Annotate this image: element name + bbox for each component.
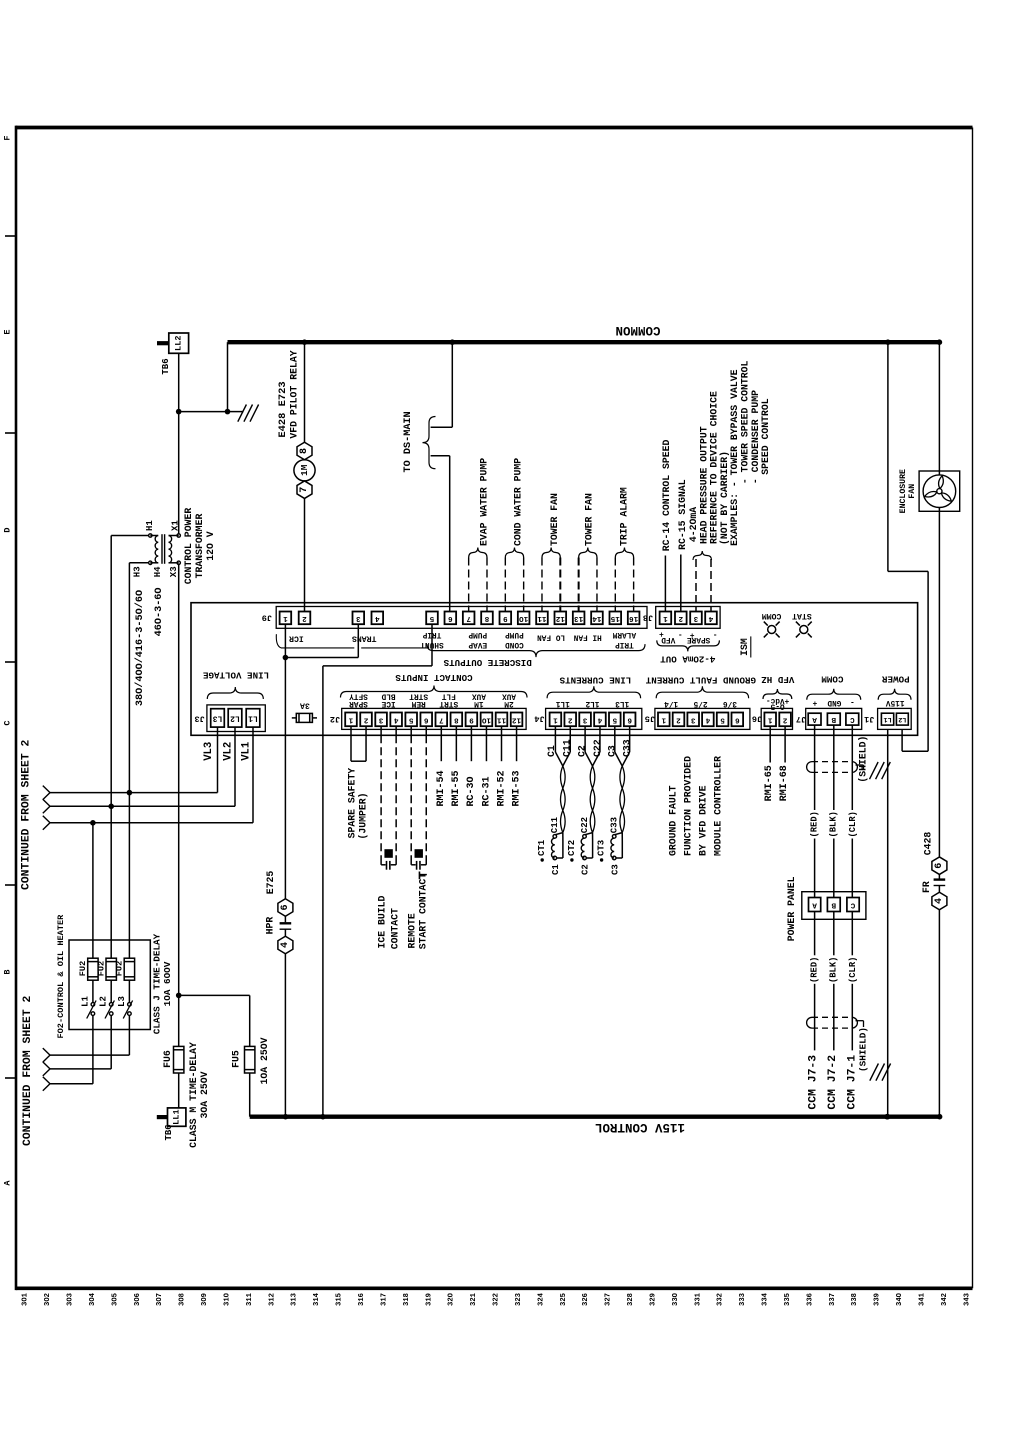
svg-text:RMI-65: RMI-65 xyxy=(764,765,775,801)
svg-text:339: 339 xyxy=(874,1293,882,1306)
pin J2-3 xyxy=(375,713,387,727)
svg-text:(JUMPER): (JUMPER) xyxy=(357,792,368,839)
svg-text:(CLR): (CLR) xyxy=(848,957,858,983)
svg-text:1O: 1O xyxy=(481,715,491,723)
fuse FU5 xyxy=(245,1046,255,1073)
svg-text:X3: X3 xyxy=(169,566,179,577)
svg-text:+: + xyxy=(812,698,817,706)
pin J2-10 xyxy=(481,713,493,727)
svg-text:B: B xyxy=(831,715,836,723)
pin J3-L3 xyxy=(211,709,225,727)
brace VFD HZ xyxy=(763,689,792,699)
wire: LL2 to node at 411.6 xyxy=(178,353,180,411)
connector POWER PANEL xyxy=(802,892,866,920)
pin J9-16 xyxy=(628,612,640,625)
wire (field) to J9-8 xyxy=(486,558,488,612)
connector J7 xyxy=(806,708,862,729)
svg-text:MODULE CONTROLLER: MODULE CONTROLLER xyxy=(713,756,724,856)
pin J9-5 xyxy=(426,612,438,625)
svg-text:(SHIELD): (SHIELD) xyxy=(858,1027,869,1072)
pin J9-12 xyxy=(555,612,567,625)
svg-text:EVAP WATER PUMP: EVAP WATER PUMP xyxy=(479,458,490,546)
svg-text:LINE CURRENTS: LINE CURRENTS xyxy=(559,675,631,686)
svg-text:327: 327 xyxy=(605,1293,613,1306)
svg-text:3O4: 3O4 xyxy=(89,1292,97,1306)
contact L1 xyxy=(92,980,94,1002)
wire: J4 pair to CT CT1 xyxy=(554,726,556,752)
contact L2 xyxy=(110,980,112,1002)
svg-text:DISCRETE OUTPUTS: DISCRETE OUTPUTS xyxy=(443,657,532,668)
wire tag 7 xyxy=(297,481,312,499)
svg-text:(RED): (RED) xyxy=(809,957,819,983)
svg-text:C3: C3 xyxy=(606,745,617,757)
svg-text:ICE BUILD: ICE BUILD xyxy=(377,895,388,948)
svg-text:C: C xyxy=(3,720,13,725)
svg-text:HPR: HPR xyxy=(264,917,275,935)
junction xyxy=(885,1114,891,1120)
svg-text:343: 343 xyxy=(963,1293,971,1306)
terminal TB6-LL2 xyxy=(169,333,189,353)
svg-text:CONTINUED FROM SHEET 2: CONTINUED FROM SHEET 2 xyxy=(22,995,34,1146)
wire (field) to J9-7 xyxy=(468,558,470,612)
svg-text:3/6: 3/6 xyxy=(723,699,737,707)
svg-text:BY VFD DRIVE: BY VFD DRIVE xyxy=(698,785,709,856)
contact block REMOTE START CONTACT xyxy=(415,849,423,858)
svg-text:8: 8 xyxy=(299,448,310,454)
svg-text:CONTACT: CONTACT xyxy=(389,908,400,949)
svg-text:FR: FR xyxy=(921,881,932,893)
sheet arrow VL3 xyxy=(43,786,50,793)
pin J9-8 xyxy=(481,612,493,625)
fuse FU2 xyxy=(124,958,134,980)
svg-text:335: 335 xyxy=(784,1293,792,1306)
svg-text:SPARE: SPARE xyxy=(687,635,711,643)
svg-text:D: D xyxy=(3,527,13,532)
pin J1-L2 xyxy=(896,713,908,725)
pin J5-5 xyxy=(717,713,729,727)
svg-text:4: 4 xyxy=(393,715,398,723)
svg-text:-: - xyxy=(850,697,855,705)
wire: 115V CONTROL bus xyxy=(250,1114,940,1118)
wire: 3A fuse line to 115V bus xyxy=(322,666,324,1117)
fuse FU2 xyxy=(88,958,98,980)
connector J1 xyxy=(878,708,912,729)
wire (field) to J9-12 xyxy=(559,558,561,612)
contact FR xyxy=(938,874,940,878)
svg-text:6: 6 xyxy=(424,715,429,723)
svg-text:C2: C2 xyxy=(577,745,588,757)
brace LINE VOLTAGE xyxy=(207,687,263,699)
pin J5-6 xyxy=(732,713,744,727)
svg-text:4: 4 xyxy=(597,715,602,723)
pin J2-4 xyxy=(390,713,402,727)
wire: fan to FR contact xyxy=(938,511,940,857)
svg-text:TO DS-MAIN: TO DS-MAIN xyxy=(403,411,414,472)
svg-text:12: 12 xyxy=(512,715,522,723)
svg-text:CCM J7-1: CCM J7-1 xyxy=(847,1055,859,1110)
pin J4-5 xyxy=(609,713,621,727)
svg-text:FAN: FAN xyxy=(908,484,917,499)
svg-text:J8: J8 xyxy=(643,612,653,622)
brace LINE CURRENTS xyxy=(547,686,641,698)
svg-text:RMI-68: RMI-68 xyxy=(779,765,790,801)
svg-text:7: 7 xyxy=(439,715,444,723)
svg-text:SPAR: SPAR xyxy=(349,699,368,707)
wire: VL2 riser to FU2-2 xyxy=(110,536,112,959)
pin J2-6 xyxy=(420,713,432,727)
svg-text:PUMP: PUMP xyxy=(505,630,524,638)
wire: FR contact to 115V bus xyxy=(938,910,940,1117)
pin J5-4 xyxy=(702,713,714,727)
junction xyxy=(320,1114,326,1120)
svg-text:EVAP: EVAP xyxy=(468,640,487,648)
svg-text:CT1: CT1 xyxy=(537,839,547,856)
svg-text:1: 1 xyxy=(661,715,666,723)
svg-text:14: 14 xyxy=(592,614,602,622)
svg-text:E428 E723: E428 E723 xyxy=(277,381,289,437)
svg-text:B: B xyxy=(831,901,836,909)
pin J2-8 xyxy=(451,713,463,727)
svg-text:323: 323 xyxy=(515,1293,523,1306)
wire: J2 stub RC-30 xyxy=(470,726,472,761)
brace output COND WATER PUMP xyxy=(505,548,523,558)
wire (field) to J8-4 xyxy=(710,559,712,612)
svg-text:324: 324 xyxy=(537,1292,545,1306)
wire: X1 riser to LL2 node xyxy=(178,413,180,534)
pin J5-3 xyxy=(687,713,699,727)
junction xyxy=(885,339,891,345)
wire: COMMON bus xyxy=(228,340,940,344)
svg-text:3O7: 3O7 xyxy=(156,1293,164,1306)
contact L3 xyxy=(128,980,130,1002)
svg-text:TOWER FAN: TOWER FAN xyxy=(584,493,595,546)
svg-text:POWER: POWER xyxy=(882,674,910,685)
svg-text:AUX: AUX xyxy=(472,692,486,700)
svg-text:H4: H4 xyxy=(153,566,163,577)
wire: H1 to VL2 riser xyxy=(111,535,148,537)
svg-text:C: C xyxy=(850,901,855,909)
ground symbol xyxy=(228,411,244,413)
pin J4-2 xyxy=(564,713,576,727)
svg-text:3: 3 xyxy=(378,715,383,723)
svg-text:L1: L1 xyxy=(248,713,258,722)
wire: HPR line ICR node to contact xyxy=(284,658,286,899)
svg-text:2: 2 xyxy=(302,614,307,622)
pin X3 xyxy=(177,561,180,564)
current transformer CT3 xyxy=(614,833,622,835)
wire (field) from J2 REMOTE xyxy=(410,726,412,735)
pin J8-2 xyxy=(675,612,687,625)
svg-text:319: 319 xyxy=(425,1293,433,1306)
junction xyxy=(176,409,182,415)
svg-text:32O: 32O xyxy=(448,1292,456,1306)
wire: J2 stub RMI-54 xyxy=(440,726,442,761)
wire: COMMON to DS-MAIN bracket xyxy=(451,342,453,427)
connector J4 xyxy=(546,708,642,729)
svg-text:CCM J7-2: CCM J7-2 xyxy=(827,1055,839,1110)
wire: H4 to VL3 riser xyxy=(129,562,148,564)
svg-text:L3: L3 xyxy=(117,996,127,1007)
pin J9-7 xyxy=(463,612,475,625)
wire (field) to J8-3 xyxy=(695,559,697,612)
svg-text:321: 321 xyxy=(470,1292,478,1306)
wire: J2 stub RMI-52 xyxy=(501,726,503,761)
pin J2-12 xyxy=(511,713,523,727)
wire: node to FU5 branch xyxy=(179,994,250,996)
ground (shield) xyxy=(870,762,879,779)
svg-text:ICR: ICR xyxy=(289,634,304,643)
svg-text:(CLR): (CLR) xyxy=(848,811,858,837)
connector J2 xyxy=(342,708,526,729)
wire: COMMON to 1M relay xyxy=(304,342,306,442)
wire tag 6 (FR) xyxy=(932,857,947,875)
svg-text:1O: 1O xyxy=(519,614,529,622)
svg-text:J5: J5 xyxy=(645,713,655,723)
wire: VL1 riser to FU2-1 xyxy=(92,823,94,958)
svg-text:313: 313 xyxy=(291,1293,299,1306)
fuse FU2 xyxy=(106,958,116,980)
svg-text:6: 6 xyxy=(627,715,632,723)
svg-text:(SHIELD): (SHIELD) xyxy=(858,736,869,783)
shield capsule lower xyxy=(812,1016,852,1018)
svg-text:338: 338 xyxy=(851,1293,859,1306)
svg-text:5: 5 xyxy=(720,715,725,723)
svg-text:RMI-55: RMI-55 xyxy=(451,770,462,806)
svg-text:REM: REM xyxy=(411,699,425,707)
svg-text:4: 4 xyxy=(705,715,710,723)
svg-text:RMI-54: RMI-54 xyxy=(436,770,447,806)
twisted pair CT1 xyxy=(561,766,566,833)
svg-text:H1: H1 xyxy=(145,520,155,531)
svg-text:HI FAN: HI FAN xyxy=(573,633,601,641)
svg-text:A: A xyxy=(812,715,817,723)
shield capsule upper xyxy=(812,761,852,763)
svg-text:J1: J1 xyxy=(864,714,874,724)
svg-text:336: 336 xyxy=(806,1293,814,1306)
svg-text:C3: C3 xyxy=(610,864,620,875)
pin J6-2 xyxy=(779,713,791,727)
wire: J4 pair to CT CT2 xyxy=(584,726,586,752)
wire: node to COMMON-bus drop xyxy=(179,411,228,413)
svg-text:RMI-53: RMI-53 xyxy=(511,770,522,806)
svg-text:318: 318 xyxy=(403,1293,411,1306)
svg-text:1L3: 1L3 xyxy=(615,699,629,707)
wire (field) to J9-10 xyxy=(523,558,525,612)
pin J6-1 xyxy=(764,713,776,727)
svg-text:1: 1 xyxy=(767,715,772,723)
svg-text:7: 7 xyxy=(466,614,471,622)
svg-text:3A: 3A xyxy=(300,701,310,710)
svg-text:L1: L1 xyxy=(884,715,892,723)
svg-text:VL1: VL1 xyxy=(241,742,253,761)
svg-text:8: 8 xyxy=(454,715,459,723)
wire: J2 stub RMI-53 xyxy=(516,726,518,761)
svg-text:2/5: 2/5 xyxy=(693,699,707,707)
contact block ICE BUILD CONTACT xyxy=(384,849,392,858)
svg-text:9: 9 xyxy=(503,614,508,622)
pin J7-C xyxy=(846,713,859,725)
svg-text:TRIP: TRIP xyxy=(615,640,634,648)
svg-text:9: 9 xyxy=(469,715,474,723)
terminal TB6-LL1 xyxy=(178,1073,180,1108)
svg-text:4: 4 xyxy=(375,614,380,622)
brace GROUND FAULT CURRENT xyxy=(656,686,748,698)
svg-text:11: 11 xyxy=(497,715,507,723)
pin J9-10 xyxy=(518,612,530,625)
pin J2-5 xyxy=(405,713,417,727)
svg-text:4: 4 xyxy=(708,614,713,622)
svg-text:VL3: VL3 xyxy=(203,742,215,761)
svg-text:325: 325 xyxy=(560,1293,568,1306)
sheet arrow L2 out xyxy=(43,1062,50,1069)
pin J5-1 xyxy=(658,713,670,727)
svg-text:A: A xyxy=(812,901,817,909)
svg-text:CLASS J TIME-DELAY: CLASS J TIME-DELAY xyxy=(151,933,162,1034)
connector J8 xyxy=(656,607,720,629)
svg-text:1: 1 xyxy=(348,715,353,723)
pin J7-A xyxy=(808,713,821,725)
svg-text:2: 2 xyxy=(782,715,787,723)
wire (field) to J9-16 xyxy=(633,558,635,612)
svg-text:TB6: TB6 xyxy=(164,1124,174,1140)
junction xyxy=(937,1114,943,1120)
brace output EVAP WATER PUMP xyxy=(469,548,487,558)
junction xyxy=(302,339,308,345)
wire VL3 xyxy=(50,792,218,794)
svg-text:L2: L2 xyxy=(99,996,109,1007)
svg-text:312: 312 xyxy=(268,1293,276,1306)
svg-text:L3: L3 xyxy=(213,713,223,722)
svg-text:TRANS: TRANS xyxy=(352,634,377,643)
svg-text:LL2: LL2 xyxy=(174,335,184,350)
fuse 3A xyxy=(292,717,297,719)
svg-text:J3: J3 xyxy=(194,713,204,723)
svg-text:SFTY: SFTY xyxy=(349,692,368,700)
svg-text:CT2: CT2 xyxy=(567,840,577,856)
svg-text:C11: C11 xyxy=(550,816,560,833)
connector J9 xyxy=(276,607,647,629)
svg-text:334: 334 xyxy=(762,1292,770,1306)
svg-text:1: 1 xyxy=(663,614,668,622)
svg-text:326: 326 xyxy=(582,1293,590,1306)
svg-text:SPARE SAFETY: SPARE SAFETY xyxy=(347,768,358,839)
svg-text:1: 1 xyxy=(553,715,558,723)
pin J1-L1 xyxy=(881,713,893,725)
pin J8-3 xyxy=(690,612,702,625)
svg-text:AUX: AUX xyxy=(502,692,516,700)
pin J2-11 xyxy=(496,713,508,727)
wire (field) from J2 ICE BUILD xyxy=(380,726,382,735)
svg-text:L2: L2 xyxy=(898,715,906,723)
pin J8-1 xyxy=(660,612,672,625)
svg-text:316: 316 xyxy=(358,1293,366,1306)
wire: J6-2 RMI-68 xyxy=(784,726,786,762)
pin J5-2 xyxy=(673,713,685,727)
svg-text:STRT: STRT xyxy=(439,699,458,707)
svg-text:3: 3 xyxy=(690,715,695,723)
svg-text:J6: J6 xyxy=(752,713,762,723)
svg-text:COMMON: COMMON xyxy=(615,323,660,337)
sheet arrow L3 out xyxy=(43,1048,50,1055)
wire: spare safety jumper J2-1 J2-2 xyxy=(350,726,352,761)
svg-text:15: 15 xyxy=(610,614,620,622)
brace TO DS-MAIN xyxy=(423,417,436,469)
svg-text:7: 7 xyxy=(299,487,310,493)
fuse block enclosure xyxy=(69,940,150,1030)
svg-text:2M: 2M xyxy=(504,699,514,707)
pin H4 xyxy=(149,561,152,564)
svg-text:TRANSFORMER: TRANSFORMER xyxy=(194,514,205,579)
brace output TOWER FAN xyxy=(542,548,560,558)
wire: COMMON to enclosure fan xyxy=(938,342,940,475)
svg-text:(BLK): (BLK) xyxy=(829,811,839,837)
pin J4-6 xyxy=(624,713,636,727)
svg-text:CONTINUED FROM SHEET 2: CONTINUED FROM SHEET 2 xyxy=(21,739,33,890)
wire: J2 stub RC-31 xyxy=(485,726,487,761)
connector J6 xyxy=(761,708,792,729)
brace output TRIP ALARM xyxy=(615,548,633,558)
pin J2-7 xyxy=(436,713,448,727)
junction xyxy=(127,790,133,796)
svg-text:TRIP ALARM: TRIP ALARM xyxy=(618,487,629,546)
svg-text:J2: J2 xyxy=(330,714,340,724)
wire VL1 xyxy=(50,822,253,824)
wire: VL3 riser to FU2-3 xyxy=(128,563,130,958)
svg-text:3O6: 3O6 xyxy=(134,1293,142,1306)
svg-text:FU5: FU5 xyxy=(230,1050,241,1068)
svg-text:STAT: STAT xyxy=(792,611,812,620)
junction xyxy=(283,655,289,661)
contact HPR xyxy=(284,916,286,922)
pin J9-2 xyxy=(299,612,311,625)
svg-text:317: 317 xyxy=(380,1293,388,1306)
svg-text:PUMP: PUMP xyxy=(468,630,487,638)
svg-text:L2: L2 xyxy=(230,713,240,722)
svg-text:4: 4 xyxy=(934,898,945,904)
svg-text:RC-31: RC-31 xyxy=(481,776,492,806)
brace output TOWER FAN xyxy=(579,548,597,558)
svg-text:322: 322 xyxy=(493,1293,501,1306)
pin J4-3 xyxy=(579,713,591,727)
junction xyxy=(90,820,96,826)
junction xyxy=(884,1114,890,1120)
svg-text:FUNCTION PROVIDED: FUNCTION PROVIDED xyxy=(683,756,694,856)
brace 4-20mA reference xyxy=(693,551,712,560)
wire tag 8 xyxy=(297,442,312,460)
svg-text:-: - xyxy=(678,630,683,638)
connector J3 xyxy=(207,705,265,732)
wire tag 4 xyxy=(278,936,293,954)
svg-text:3O9: 3O9 xyxy=(201,1293,209,1306)
svg-text:COMM: COMM xyxy=(762,611,782,620)
svg-text:5: 5 xyxy=(408,715,413,723)
sheet arrow L1 out xyxy=(43,1077,50,1084)
svg-text:8: 8 xyxy=(484,614,489,622)
svg-text:6: 6 xyxy=(934,863,945,869)
svg-text:332: 332 xyxy=(717,1293,725,1306)
pin J9-4 xyxy=(372,612,384,625)
pin J9-13 xyxy=(573,612,585,625)
svg-text:115V CONTROL: 115V CONTROL xyxy=(595,1120,685,1134)
svg-text:3O5: 3O5 xyxy=(111,1293,119,1306)
svg-text:315: 315 xyxy=(336,1293,344,1306)
pin J2-2 xyxy=(360,713,372,727)
svg-text:J4: J4 xyxy=(534,713,544,723)
svg-text:FU2: FU2 xyxy=(78,961,88,976)
pin J2-1 xyxy=(345,713,357,727)
svg-text:2: 2 xyxy=(363,715,368,723)
pin J4-1 xyxy=(550,713,562,727)
